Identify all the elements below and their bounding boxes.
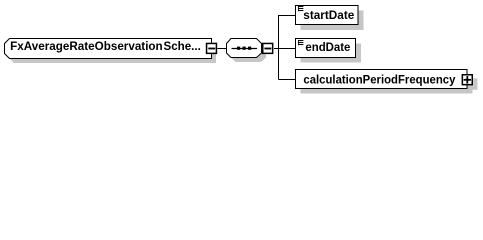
sequence compositor octagon xyxy=(227,39,262,58)
element endDate box xyxy=(296,39,356,58)
element calculationPeriodFrequency shadow xyxy=(301,75,473,94)
sequence icon dot 1 xyxy=(237,47,240,50)
sequence compositor shadow xyxy=(231,43,266,62)
annotation icon on endDate xyxy=(298,40,303,45)
sequence icon dot 3 xyxy=(248,47,251,50)
sequence icon dot 2 xyxy=(243,47,246,50)
element endDate shadow xyxy=(301,44,362,63)
svg-text:endDate: endDate xyxy=(305,42,350,54)
svg-text:Sche...: Sche... xyxy=(164,41,201,53)
expand button (minus) on FxAverageRateObservationSchedule xyxy=(206,43,217,54)
annotation icon on startDate xyxy=(298,6,303,11)
svg-text:calculationPeriodFrequency: calculationPeriodFrequency xyxy=(303,74,456,86)
element startDate shadow xyxy=(301,11,364,31)
element FxAverageRateObservationSchedule shadow xyxy=(9,43,216,63)
expand button (minus) on sequence compositor xyxy=(262,43,273,54)
element FxAverageRateObservationSchedule box xyxy=(5,39,212,59)
svg-text:startDate: startDate xyxy=(303,10,354,22)
wire stub to startDate xyxy=(279,15,296,17)
element startDate box xyxy=(296,6,359,25)
expand button (plus) shadow xyxy=(468,78,477,89)
wire stub to endDate xyxy=(279,48,296,50)
branch trunk vertical wire xyxy=(278,15,280,80)
sequence icon line xyxy=(232,48,258,50)
wire stub to calculationPeriodFrequency xyxy=(279,79,296,81)
wire from sequence compositor to branch trunk xyxy=(274,48,279,50)
expand button (plus) on calculationPeriodFrequency xyxy=(462,74,473,85)
wire from element to sequence compositor xyxy=(218,48,227,50)
svg-text:FxAverageRateObservation: FxAverageRateObservation xyxy=(10,41,163,53)
element calculationPeriodFrequency box xyxy=(296,70,468,89)
